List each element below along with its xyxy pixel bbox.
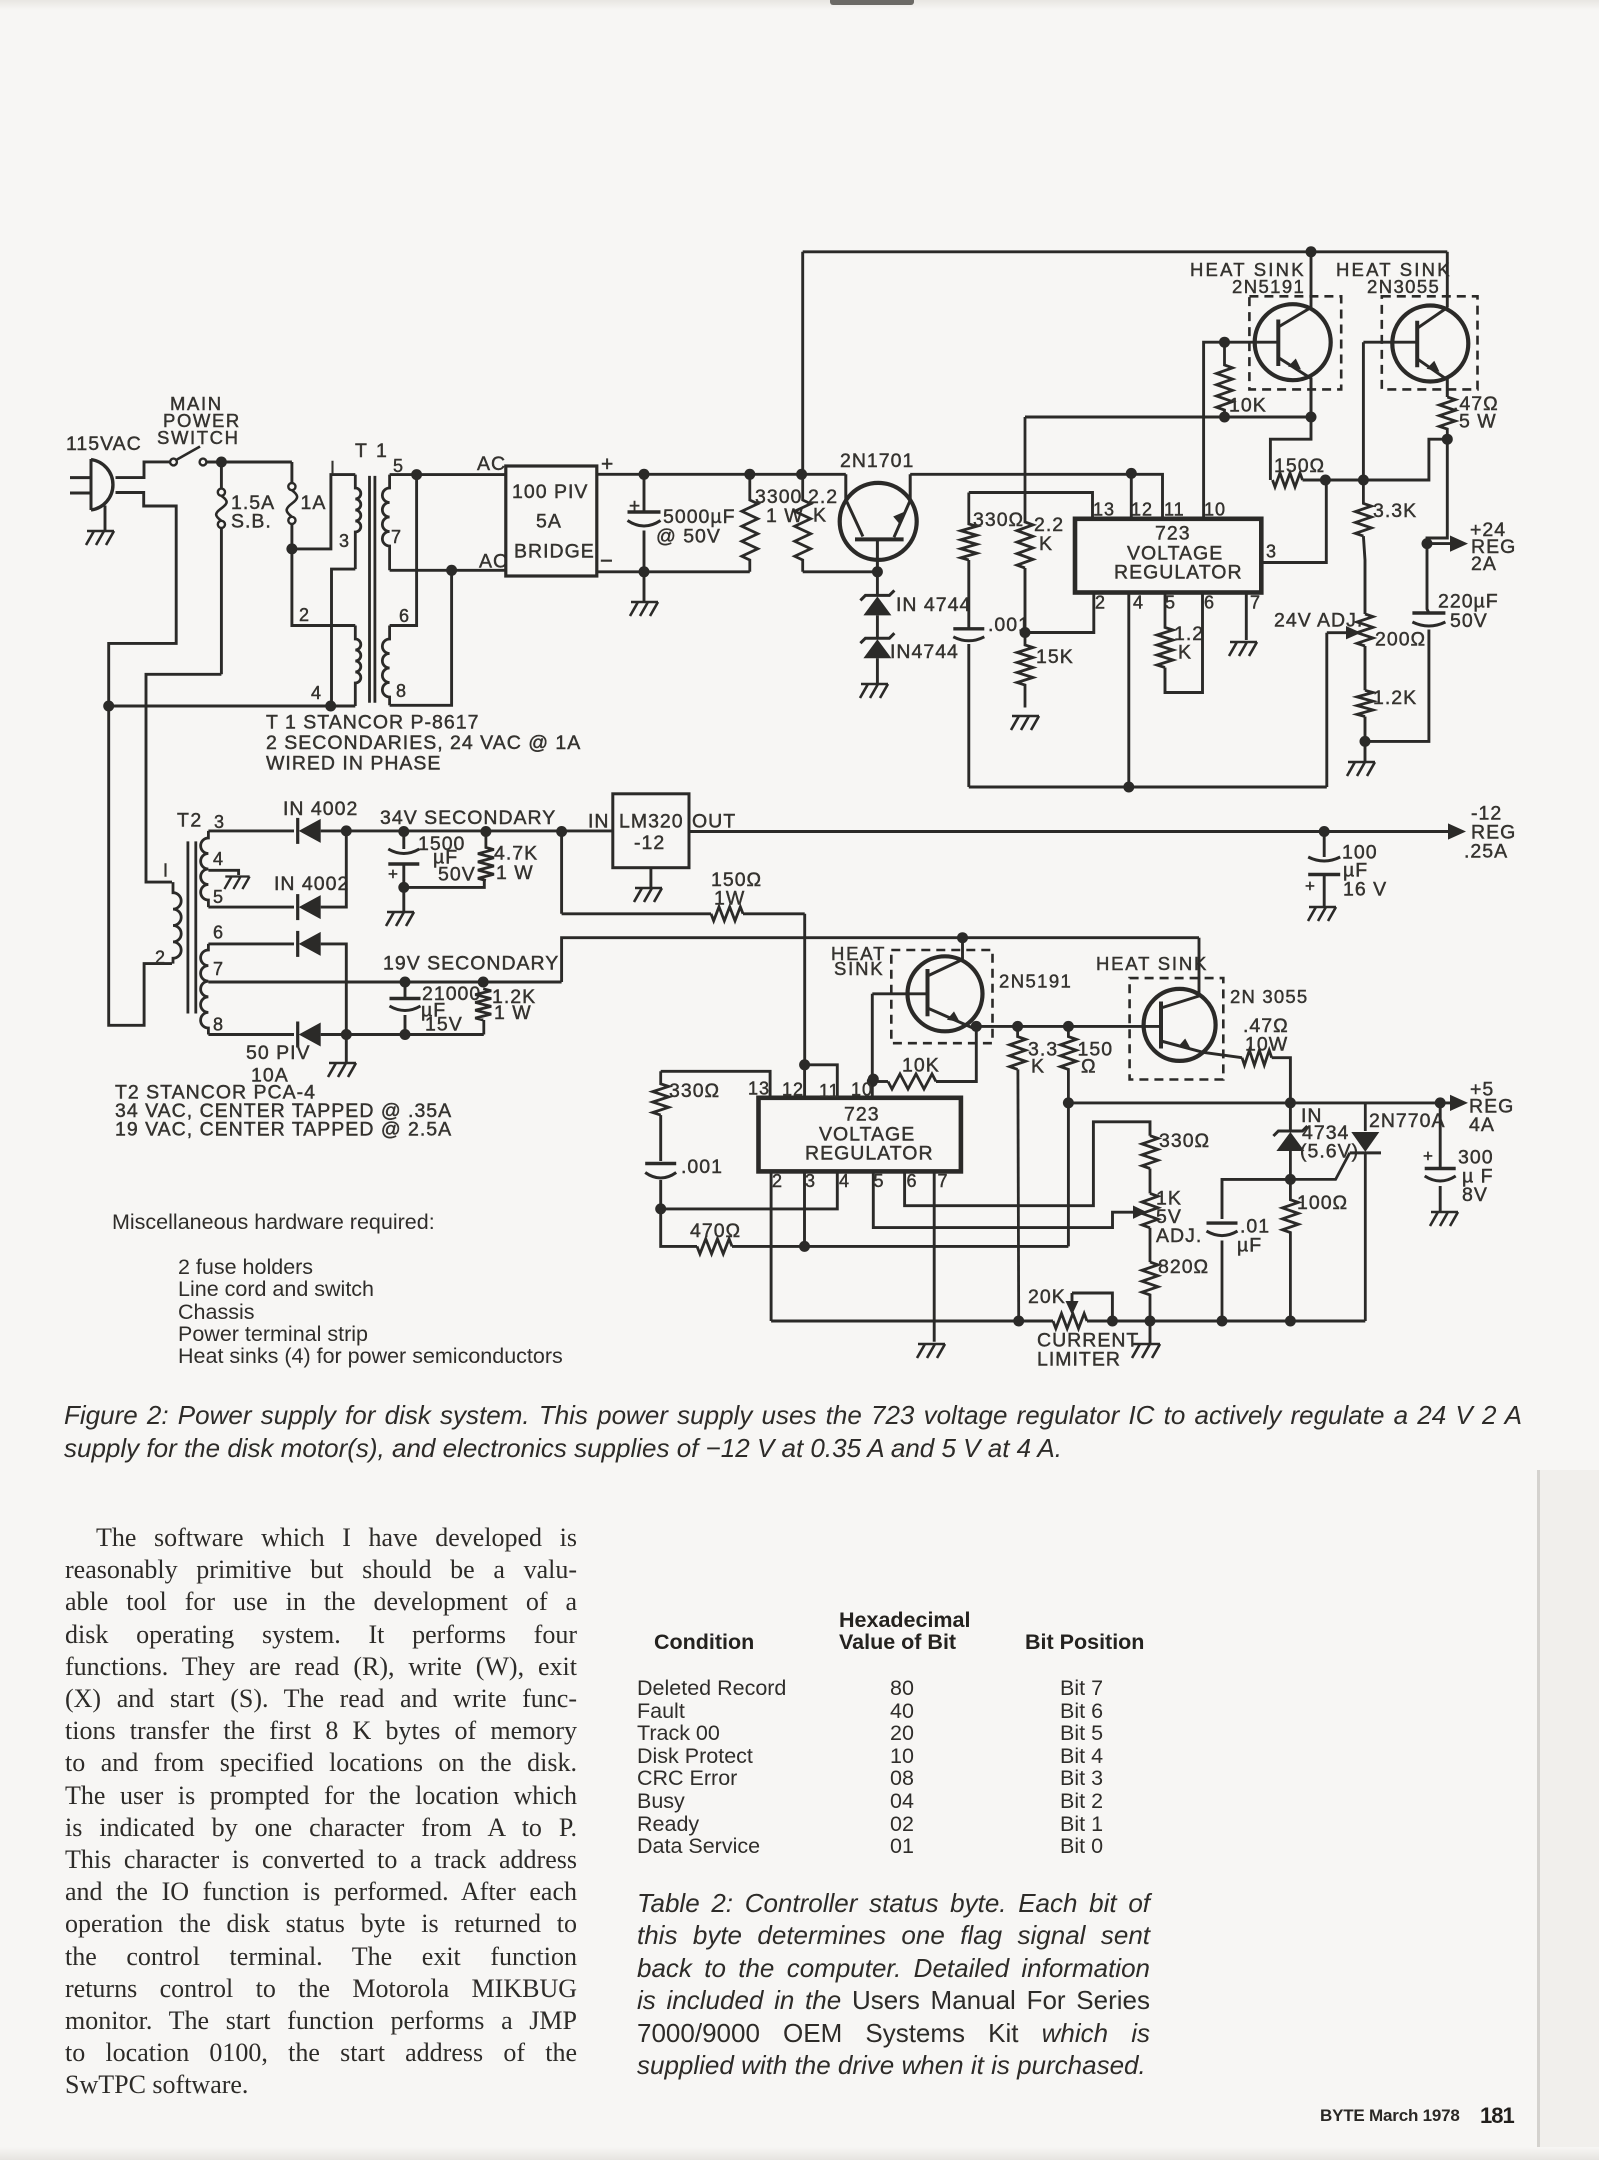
label REGULATOR b [805, 1143, 934, 1165]
label 100ohm [1297, 1192, 1348, 1214]
resistor R 150 1W [562, 907, 805, 921]
node .001b bottom [655, 1203, 666, 1214]
svg-text:16 V: 16 V [1343, 879, 1387, 901]
node zener 4734 top [1285, 1097, 1296, 1108]
svg-text:7: 7 [391, 527, 402, 547]
resistor R 150 a [1273, 473, 1303, 487]
label T2 STANCOR PCA-4 [115, 1082, 316, 1104]
svg-text:3: 3 [339, 531, 350, 551]
svg-text:LM320: LM320 [619, 811, 684, 833]
resistor R 470 [661, 1209, 1069, 1254]
AC plug P1 [70, 459, 113, 531]
node 10K bottom [1219, 412, 1230, 423]
label AC upper [477, 453, 506, 475]
label 5.6V [1300, 1141, 1359, 1163]
IC U3 LM320-12 [613, 794, 689, 868]
label 470ohm [690, 1220, 741, 1242]
page right edge shadow [1537, 1470, 1540, 2160]
label REG a [1471, 536, 1516, 558]
svg-text:2: 2 [299, 605, 310, 625]
wire D4 out [321, 1033, 484, 1036]
svg-text:8: 8 [396, 681, 407, 701]
label 1500 [418, 833, 465, 855]
svg-text:330Ω: 330Ω [973, 509, 1024, 531]
svg-text:19V SECONDARY: 19V SECONDARY [383, 953, 559, 975]
ground below C100 [1308, 907, 1336, 921]
node feedback tap [796, 469, 807, 480]
label 1W d [714, 888, 745, 910]
node 3.3K b bottom [1013, 1316, 1024, 1327]
label HEAT SINK d [1096, 953, 1208, 974]
label pin5 b [874, 1171, 885, 1191]
page bottom edge [0, 2147, 1599, 2160]
label 19 VAC CT [115, 1119, 452, 1141]
svg-text:K: K [813, 505, 827, 527]
label at 50V [656, 526, 721, 548]
label 10W [1245, 1034, 1288, 1056]
node C 21000 bottom [400, 1029, 411, 1040]
label uF c [1343, 860, 1368, 882]
label 1K [1156, 1188, 1182, 1210]
capacitor C 1500uF [388, 832, 419, 888]
wire T2 pin4 tap [208, 870, 238, 875]
label HEAT c [831, 943, 886, 964]
wire T2 pin8 out [208, 1033, 294, 1036]
label IN4744 b [890, 641, 959, 663]
label T1 pin3 [339, 531, 350, 551]
node Q1 base [872, 566, 883, 577]
label +24 [1470, 519, 1506, 541]
svg-text:4: 4 [311, 683, 322, 703]
svg-text:5A: 5A [536, 511, 562, 533]
footer [1320, 2106, 1460, 2126]
label 5000uF [663, 506, 736, 528]
wire 330 top bracket [969, 493, 1093, 519]
label 100 [1342, 842, 1378, 864]
svg-text:723: 723 [844, 1104, 880, 1126]
wire F2 to T1 pin1 [292, 475, 355, 549]
ground below zeners [860, 658, 888, 698]
label IN c [1301, 1105, 1323, 1127]
label T2 pin1 [163, 861, 169, 881]
potentiometer 1K 5V ADJ [1142, 1193, 1158, 1227]
transformer T1 core [370, 476, 375, 703]
wire pin3 b [803, 1171, 806, 1246]
wire pin3 link [1261, 480, 1326, 563]
svg-text:3: 3 [805, 1171, 816, 1191]
label pin6 b [907, 1171, 918, 1191]
svg-text:1W: 1W [714, 888, 745, 910]
svg-text:4: 4 [839, 1171, 850, 1191]
svg-text:T2: T2 [177, 810, 203, 832]
label 1W c [494, 1002, 532, 1024]
label pin7 a [1250, 593, 1261, 613]
node 20K right [1107, 1316, 1118, 1327]
label BRIDGE [514, 541, 595, 563]
label 5W [1459, 411, 1497, 433]
resistor R 10K a [1217, 342, 1233, 417]
svg-text:-12: -12 [634, 832, 665, 854]
svg-text:+: + [388, 865, 399, 884]
label -12 [634, 832, 665, 854]
node 100 bottom [1285, 1316, 1296, 1327]
resistor R 3.3K b [1010, 1026, 1026, 1321]
wire rail to T2 pin2 [109, 706, 172, 1025]
label pin10 a [1204, 500, 1226, 520]
svg-text:ADJ.: ADJ. [1156, 1225, 1202, 1247]
svg-text:7: 7 [1250, 593, 1261, 613]
node 150 c top [1063, 1021, 1074, 1032]
wire 150 right rail [1303, 439, 1448, 480]
wire T1 sec parallel link [390, 475, 417, 626]
diode D3 IN4002 [298, 931, 321, 957]
transformer T1 secondary winding 5-7 [382, 475, 389, 571]
label 1A [301, 492, 327, 514]
wire pin11 b [805, 1065, 838, 1098]
label REGULATOR a [1114, 562, 1243, 584]
resistor R 1.2K b [1357, 690, 1373, 716]
label T2 pin8 [213, 1015, 224, 1035]
svg-text:K: K [1039, 533, 1053, 555]
wire LM320 in drop [560, 832, 563, 914]
svg-text:6: 6 [907, 1171, 918, 1191]
label pin4 a [1133, 593, 1144, 613]
label pin7 b [938, 1171, 949, 1191]
pot wiper arrow b [1131, 1206, 1147, 1219]
svg-text:5: 5 [1165, 593, 1176, 613]
scan smudge top [830, 0, 914, 5]
label 50V b [438, 864, 476, 886]
capacitor C .01uF [1207, 1223, 1238, 1321]
transformer T2 winding 6-8 [201, 944, 209, 1035]
node Q2 emitter junction [1306, 412, 1317, 423]
resistor R 330 c [1142, 1136, 1158, 1169]
wire T2 pin5 out [208, 906, 294, 909]
svg-text:11: 11 [1164, 500, 1185, 520]
resistor R 100 [1282, 1151, 1298, 1321]
label uF e [1462, 1166, 1494, 1188]
wire pin12 b [803, 1065, 806, 1098]
label 2N5191 b [999, 970, 1072, 991]
node +24 tap [1422, 538, 1433, 549]
svg-text:6: 6 [213, 923, 224, 943]
label C100 plus [1305, 877, 1316, 896]
node pin4 bottom [1123, 782, 1134, 793]
ground T2 center tap [224, 877, 249, 890]
svg-text:1A: 1A [301, 492, 327, 514]
transformer T1 primary winding 1-3 [355, 475, 361, 569]
label 3300 [755, 486, 802, 508]
wire bridge plus rail [597, 473, 846, 476]
ground below divider [1347, 741, 1375, 776]
svg-text:7: 7 [213, 959, 224, 979]
heat sink box Q4 [891, 950, 992, 1043]
fuse F2 1A [287, 462, 298, 549]
label REG c [1469, 1096, 1514, 1118]
ground below LM320 [634, 868, 662, 902]
wire Q4 base [872, 992, 927, 995]
label REG b [1471, 822, 1516, 844]
node pin10 b junction [868, 1074, 879, 1085]
svg-text:50V: 50V [438, 864, 476, 886]
svg-text:+: + [629, 496, 641, 517]
resistor R 10K b [872, 1026, 976, 1089]
wire 10K bottom to emitter [1225, 416, 1312, 419]
arrowhead +24 [1450, 536, 1468, 552]
label T2 pin5 [213, 887, 224, 907]
figure caption [64, 1399, 1522, 1465]
transistor Q2 2N5191 [1255, 304, 1331, 417]
label T1 [355, 440, 389, 462]
svg-text:6: 6 [399, 606, 410, 626]
zener D7 IN4734 [1273, 1103, 1307, 1151]
node 3.3K b top [1012, 1021, 1023, 1032]
label MAIN POWER SWITCH [157, 393, 241, 448]
wire pin2 b [770, 1171, 773, 1321]
resistor R 330 b [653, 1071, 669, 1115]
svg-text:µF: µF [1237, 1235, 1262, 1257]
svg-text:+: + [1305, 877, 1316, 896]
svg-text:5: 5 [393, 456, 404, 476]
wire T1 pin5 to AC upper [390, 473, 506, 476]
label 2N770A [1369, 1110, 1445, 1132]
wire feedback vertical [801, 252, 804, 474]
svg-text:13: 13 [1093, 500, 1115, 520]
wire Q4 collector [961, 938, 964, 960]
wire 3.3K to pot [1363, 536, 1365, 614]
pot 20K wiper [1066, 1293, 1113, 1321]
svg-text:@ 50V: @ 50V [656, 526, 721, 548]
svg-text:20K: 20K [1028, 1286, 1066, 1308]
svg-text:8: 8 [213, 1015, 224, 1035]
capacitor C .001 b [645, 1115, 676, 1209]
label T1 STANCOR P-8617 [266, 712, 479, 734]
diode D1 IN4002 [298, 818, 321, 844]
svg-text:Ω: Ω [1081, 1056, 1097, 1078]
svg-text:SWITCH: SWITCH [157, 427, 240, 448]
svg-text:3: 3 [1266, 542, 1277, 562]
svg-text:SINK: SINK [834, 958, 884, 979]
wire emitter to 150 left [1270, 417, 1311, 480]
label K b [1031, 1056, 1045, 1078]
label T2 pin7 [213, 959, 224, 979]
capacitor .001 a [953, 560, 984, 787]
svg-text:K: K [1178, 642, 1192, 664]
label 16V [1343, 879, 1387, 901]
svg-text:470Ω: 470Ω [690, 1220, 741, 1242]
label LIMITER [1037, 1349, 1121, 1371]
wire bridge minus rail [597, 570, 750, 573]
svg-text:5: 5 [213, 887, 224, 907]
transistor Q5 2N3055 [1144, 989, 1242, 1061]
label pin12 a [1131, 500, 1153, 520]
wire pin7 down [1245, 593, 1248, 641]
svg-text:2: 2 [772, 1171, 783, 1191]
svg-text:HEAT SINK: HEAT SINK [1096, 953, 1208, 974]
label 21000 [422, 983, 481, 1005]
svg-text:13: 13 [748, 1079, 770, 1099]
label pin11 b [819, 1081, 840, 1101]
svg-text:IN: IN [588, 811, 610, 833]
label 330ohm c [1159, 1130, 1210, 1152]
label pin5 a [1165, 593, 1176, 613]
wire 2.2K b to emitter junction [1025, 416, 1311, 419]
svg-text:IN4744: IN4744 [890, 641, 959, 663]
bridge rectifier 100PIV 5A [506, 466, 597, 576]
label uF d [1237, 1235, 1262, 1257]
svg-text:I: I [330, 458, 336, 478]
svg-text:IN 4744: IN 4744 [896, 594, 971, 616]
label T2 pin6 [213, 923, 224, 943]
pot wiper arrow a [1327, 626, 1361, 639]
wire F2 junction to T1 pin2 [292, 549, 355, 626]
label 115VAC [66, 433, 142, 455]
wire +5 rail [1068, 1101, 1452, 1104]
label 34 VAC CT [115, 1100, 452, 1122]
svg-text:BRIDGE: BRIDGE [514, 541, 595, 563]
label T1 pin4 [311, 683, 322, 703]
wire switch to junction [206, 461, 292, 464]
diode D2 IN4002 [298, 894, 321, 920]
svg-text:2N1701: 2N1701 [840, 450, 914, 472]
resistor R 4.7K [478, 832, 494, 881]
label 1.5A S.B. [231, 492, 275, 533]
resistor R 2.2K b [1017, 417, 1033, 568]
wire T2 pin6 out [208, 942, 294, 945]
svg-text:2A: 2A [1471, 553, 1497, 575]
label 2N5191 a [1232, 276, 1305, 297]
svg-text:11: 11 [819, 1081, 840, 1101]
resistor R .47 10W [1242, 1050, 1290, 1103]
table 2 [839, 1608, 970, 1633]
label VOLTAGE b [819, 1124, 915, 1146]
svg-text:2N 3055: 2N 3055 [1230, 986, 1308, 1007]
label 4.7K [494, 843, 538, 865]
svg-text:I: I [163, 861, 169, 881]
svg-text:AC: AC [479, 551, 508, 573]
SCR Q6 2N770A [1290, 1103, 1381, 1321]
ground below 15K [1011, 716, 1039, 730]
svg-text:15V: 15V [425, 1014, 463, 1036]
svg-text:8V: 8V [1462, 1184, 1488, 1206]
label 2A [1471, 553, 1497, 575]
wire Q3 base [1363, 341, 1417, 344]
wire D1 out [321, 829, 613, 832]
label LM320 [619, 811, 684, 833]
label 150ohm a [1274, 455, 1325, 477]
svg-text:2N770A: 2N770A [1369, 1110, 1445, 1132]
svg-text:4: 4 [213, 849, 224, 869]
node bottom-left rail [103, 701, 114, 712]
svg-text:50V: 50V [1450, 610, 1488, 632]
wire Q3 collector [1446, 252, 1449, 308]
wire +24 arrow [1427, 542, 1452, 545]
capacitor C 100uF [1308, 832, 1340, 907]
label ohm c [1081, 1056, 1097, 1078]
svg-text:OUT: OUT [692, 811, 736, 833]
label 1.2K c [492, 986, 536, 1008]
heat sink box Q2 [1249, 296, 1341, 389]
svg-text:S.B.: S.B. [231, 511, 272, 533]
IC U1 723 voltage regulator [1075, 519, 1261, 593]
svg-text:3.3K: 3.3K [1373, 500, 1417, 522]
svg-text:5: 5 [874, 1171, 885, 1191]
label 50V a [1450, 610, 1488, 632]
label bridge plus [601, 453, 614, 476]
label 5V c [1156, 1206, 1182, 1228]
heat sink box Q3 [1382, 296, 1478, 389]
label OUT [692, 811, 736, 833]
svg-text:LIMITER: LIMITER [1037, 1349, 1121, 1371]
body text column [65, 1522, 577, 2102]
wire emitter rail to 723 [910, 474, 1162, 519]
svg-text:10K: 10K [1229, 395, 1267, 417]
label pin2 a [1095, 593, 1106, 613]
node R 4.7K top [480, 826, 491, 837]
page edge shading top [0, 0, 1599, 10]
svg-text:1 W: 1 W [496, 862, 534, 884]
label 1W a [766, 505, 804, 527]
svg-text:3: 3 [214, 812, 225, 832]
label HEAT SINK b [1336, 259, 1452, 280]
label 2N3055 b [1230, 986, 1308, 1007]
node Q4 emitter [971, 1021, 982, 1032]
wire pin4 b link [661, 1171, 838, 1209]
ground below D4 junction [328, 1035, 356, 1078]
label VOLTAGE a [1127, 543, 1223, 565]
ground below C300 [1430, 1212, 1458, 1226]
svg-text:.25A: .25A [1464, 841, 1508, 863]
node C 1500 top [398, 826, 409, 837]
wire Q2 collector [1310, 252, 1313, 308]
label pin12 b [782, 1080, 804, 1100]
node .47 bottom [1442, 434, 1453, 445]
label IN4002 b [274, 873, 349, 895]
svg-text:.001: .001 [681, 1156, 723, 1178]
label 820ohm [1158, 1256, 1209, 1278]
wire fuse F1 to T2 pin1 [146, 674, 221, 882]
node C1 bottom [639, 566, 650, 577]
label HEAT SINK a [1190, 259, 1306, 280]
label 3.3 b [1028, 1039, 1058, 1061]
resistor R 15K [1017, 633, 1033, 708]
resistor R 1.2K a [1157, 593, 1173, 668]
wire pin2 link [1025, 593, 1094, 633]
wire emitter junction run [976, 1025, 1161, 1028]
wire pin4 down [1127, 593, 1130, 788]
label T1 pin6 [399, 606, 410, 626]
node pin3 b [799, 1241, 810, 1252]
node fuse F2 bottom [286, 543, 297, 554]
label 4734 [1302, 1122, 1349, 1144]
wire 1.2K b to node [1364, 717, 1367, 742]
label 1.2K a [1174, 623, 1204, 664]
svg-text:2: 2 [1095, 593, 1106, 613]
node C 100 top [1319, 826, 1330, 837]
node 3.3K top [1358, 475, 1369, 486]
transformer T1 secondary winding 6-8 [382, 626, 389, 706]
wire 19V riser [562, 938, 1199, 982]
label T2 pin4 [213, 849, 224, 869]
svg-text:150Ω: 150Ω [1274, 455, 1325, 477]
label 2 SECONDARIES [266, 732, 581, 754]
diode D4 IN4002 [298, 1022, 321, 1048]
label IN [588, 811, 610, 833]
wire -12 rail [689, 830, 1452, 833]
switch S1 [170, 447, 206, 466]
svg-text:34V SECONDARY: 34V SECONDARY [380, 807, 556, 829]
heat sink box Q5 [1130, 978, 1224, 1079]
